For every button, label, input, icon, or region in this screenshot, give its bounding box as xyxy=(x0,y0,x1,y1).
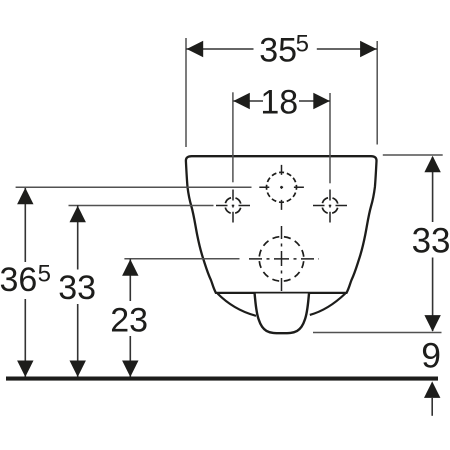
dim 35.5 line left segment xyxy=(186,48,254,50)
svg-text:36: 36 xyxy=(0,261,37,299)
dim 18 line right segment xyxy=(299,100,330,102)
dim 35.5 right extension line xyxy=(376,41,378,145)
supply hole vertical center line xyxy=(281,165,283,210)
dim 23 up arrow xyxy=(122,259,138,276)
outlet horizontal center line xyxy=(249,258,319,260)
dim 18 left extension line xyxy=(232,92,234,182)
dim 23 line upper segment xyxy=(129,259,131,301)
bottom cover arc left xyxy=(218,294,257,316)
dim 35.5 left extension line xyxy=(185,38,187,147)
dim 36.5 line lower segment xyxy=(24,299,26,377)
dim 9 up arrow xyxy=(424,381,440,398)
outlet pipe U xyxy=(255,294,309,334)
dim 18 right extension line xyxy=(329,93,331,183)
dim 33 right bottom reference line xyxy=(313,332,442,334)
dim 23 down arrow xyxy=(122,361,138,378)
dim 36.5 down arrow xyxy=(17,361,33,378)
dim 35.5 line right segment xyxy=(317,48,377,50)
svg-text:5: 5 xyxy=(38,260,51,287)
dim 33 left down arrow xyxy=(70,361,86,378)
bottom cover arc right xyxy=(310,294,346,315)
right fixing hole horizontal center line xyxy=(313,205,347,207)
floor line xyxy=(6,377,438,381)
dim 33 right line upper segment xyxy=(432,157,434,222)
dim 35.5 left arrow xyxy=(187,41,204,57)
dim 23 line lower segment xyxy=(129,336,131,377)
svg-text:18: 18 xyxy=(260,84,298,122)
outlet hole (dashed circle) xyxy=(259,237,304,282)
left fixing hole horizontal center line xyxy=(216,205,250,207)
dim 36.5 line upper segment xyxy=(24,188,26,262)
dim 33 right line lower segment xyxy=(432,258,434,332)
dim 36.5 up arrow xyxy=(17,188,33,205)
supply hole horizontal center line xyxy=(259,186,304,188)
dim 18 right arrow xyxy=(313,93,330,109)
dim 36.5 reference line xyxy=(16,186,252,188)
svg-text:9: 9 xyxy=(421,335,441,375)
svg-text:33: 33 xyxy=(412,221,450,260)
right fixing hole xyxy=(322,198,338,214)
outlet vertical center line xyxy=(281,226,283,291)
dim 33 left up arrow xyxy=(70,206,86,223)
dim 18 left arrow xyxy=(233,93,250,109)
svg-text:33: 33 xyxy=(58,269,96,307)
dim 33 left line lower segment xyxy=(77,304,79,377)
dim 33 right top reference line xyxy=(383,154,443,156)
toilet body outline xyxy=(186,156,377,293)
left fixing hole xyxy=(225,198,241,214)
dim 35.5 right arrow xyxy=(360,41,377,57)
dim 9 arrow tail xyxy=(431,398,433,416)
left fixing hole vertical center line xyxy=(232,190,234,223)
dim 18 line left segment xyxy=(234,100,264,102)
water supply hole (dashed circle) xyxy=(267,172,297,202)
right fixing hole vertical center line xyxy=(329,190,331,223)
dim 23 reference line xyxy=(124,258,239,260)
dim 33 right up arrow xyxy=(424,156,440,173)
svg-text:35: 35 xyxy=(259,32,297,70)
dim 33 left reference line xyxy=(69,205,214,207)
svg-text:5: 5 xyxy=(296,31,309,58)
dim 33 left line upper segment xyxy=(77,205,79,270)
svg-text:23: 23 xyxy=(110,301,148,339)
dim 33 right down arrow xyxy=(424,315,440,332)
